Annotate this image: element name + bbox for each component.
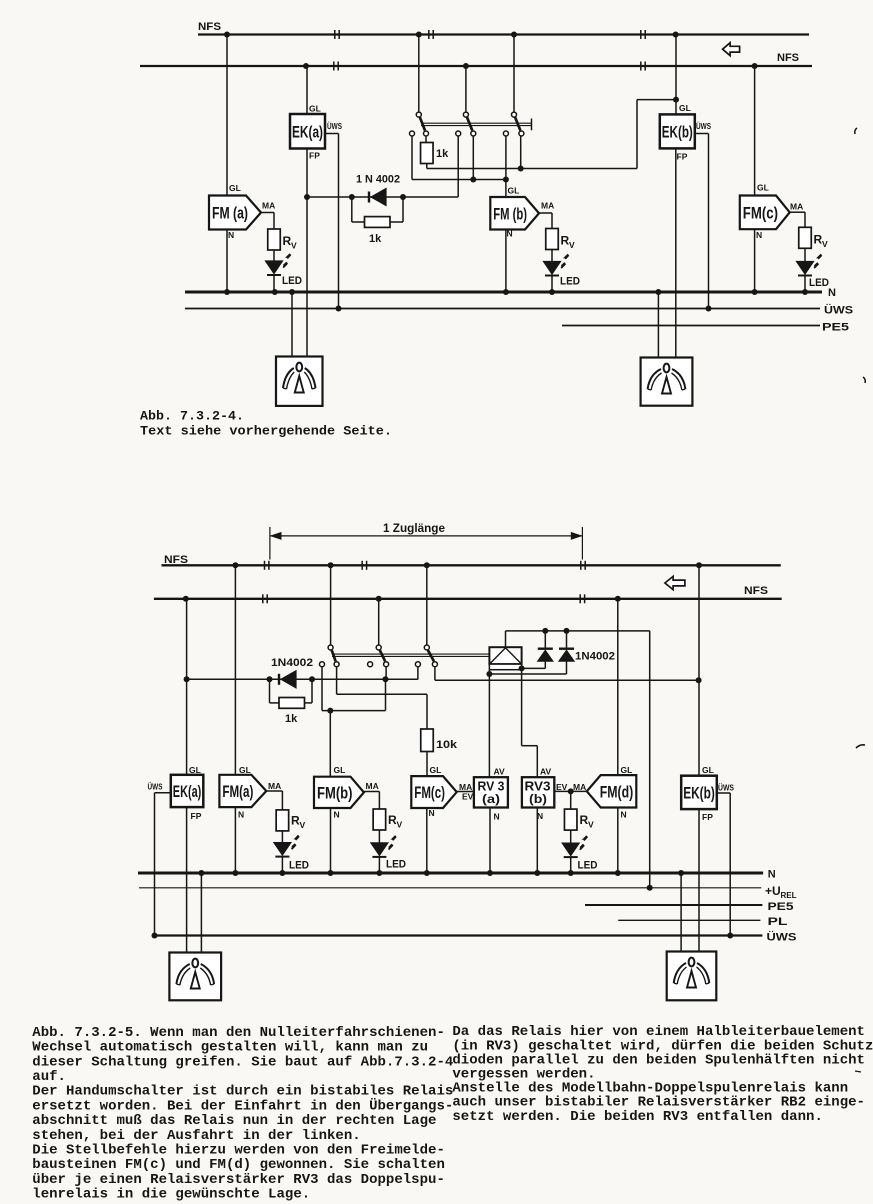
svg-text:LED: LED (282, 275, 302, 287)
svg-text:Wechsel automatisch gestalten: Wechsel automatisch gestalten will, kann… (32, 1041, 428, 1056)
svg-text:1k: 1k (436, 148, 449, 160)
svg-text:FM(c): FM(c) (414, 783, 445, 802)
svg-text:ÜWS: ÜWS (696, 121, 711, 131)
svg-text:MA: MA (790, 202, 803, 212)
svg-text:N: N (768, 869, 776, 881)
svg-text:N: N (429, 808, 435, 818)
svg-text:V: V (569, 240, 575, 250)
svg-text:PE5: PE5 (768, 901, 794, 913)
svg-text:(b): (b) (529, 792, 547, 806)
svg-text:ersetzt worden. Bei der Einfah: ersetzt worden. Bei der Einfahrt in den … (32, 1097, 453, 1114)
svg-text:1k: 1k (369, 233, 382, 245)
svg-text:10k: 10k (436, 739, 458, 751)
svg-text:1 Zuglänge: 1 Zuglänge (383, 521, 445, 535)
svg-text:LED: LED (560, 276, 580, 288)
svg-text:setzt werden. Die beiden RV3 e: setzt werden. Die beiden RV3 entfallen d… (452, 1110, 822, 1125)
svg-text:N: N (238, 810, 244, 820)
svg-text:MA: MA (262, 201, 275, 211)
svg-text:Die Stellbefehle hierzu werden: Die Stellbefehle hierzu werden von den F… (32, 1144, 445, 1159)
svg-text:FM(d): FM(d) (600, 782, 634, 801)
svg-text:ÜWS: ÜWS (824, 304, 853, 317)
svg-text:V: V (300, 820, 306, 830)
svg-text:N: N (756, 230, 762, 240)
svg-text:Da das Relais hier von einem H: Da das Relais hier von einem Halbleiterb… (452, 1025, 865, 1040)
svg-text:ÜWS: ÜWS (767, 931, 797, 944)
svg-text:GL: GL (430, 765, 442, 775)
svg-text:AV: AV (494, 767, 506, 777)
svg-text:FM (b): FM (b) (493, 204, 527, 223)
svg-text:auf.: auf. (32, 1070, 66, 1085)
svg-text:EK(b): EK(b) (683, 783, 715, 802)
svg-text:auch unser bistabiler Relaisve: auch unser bistabiler Relaisverstärker R… (452, 1096, 865, 1111)
svg-text:Text siehe vorhergehende Seite: Text siehe vorhergehende Seite. (140, 423, 392, 438)
svg-text:GL: GL (679, 103, 691, 113)
svg-text:GL: GL (309, 104, 321, 114)
svg-text:PE5: PE5 (822, 322, 849, 334)
svg-text:über je einen Relaisverstärker: über je einen Relaisverstärker RV3 das D… (32, 1173, 445, 1188)
svg-text:Abb. 7.3.2-5. Wenn man den Nul: Abb. 7.3.2-5. Wenn man den Nulleiterfahr… (32, 1026, 445, 1041)
svg-text:V: V (822, 239, 828, 249)
svg-text:dioden parallel zu den beiden: dioden parallel zu den beiden Spulenhälf… (452, 1053, 865, 1068)
svg-text:EV: EV (462, 792, 474, 802)
svg-text:1k: 1k (285, 713, 298, 725)
svg-text:V: V (588, 820, 594, 830)
svg-text:GL: GL (757, 183, 769, 193)
svg-text:EK(b): EK(b) (662, 122, 693, 141)
svg-text:vergessen werden.: vergessen werden. (452, 1068, 595, 1083)
svg-text:abschnitt muß das Relais nun i: abschnitt muß das Relais nun in der rech… (32, 1114, 436, 1129)
svg-text:EK(a): EK(a) (292, 122, 323, 141)
svg-text:N: N (621, 810, 627, 820)
svg-text:FP: FP (191, 811, 202, 821)
svg-text:V: V (397, 820, 403, 830)
svg-text:MA: MA (366, 781, 379, 791)
svg-text:EV: EV (556, 782, 568, 792)
svg-text:GL: GL (239, 765, 251, 775)
svg-text:PL: PL (768, 916, 788, 928)
svg-text:MA: MA (268, 781, 281, 791)
svg-text:GL: GL (508, 186, 520, 196)
svg-text:GL: GL (229, 183, 241, 193)
svg-text:REL: REL (781, 891, 797, 900)
svg-text:FM (a): FM (a) (212, 204, 248, 223)
svg-text:GL: GL (334, 765, 346, 775)
svg-text:stehen, bei der Ausfahrt in de: stehen, bei der Ausfahrt in der linken. (32, 1129, 360, 1144)
svg-text:GL: GL (189, 765, 201, 775)
svg-text:FP: FP (309, 151, 320, 161)
svg-text:Abb. 7.3.2-4.: Abb. 7.3.2-4. (140, 408, 244, 423)
svg-text:LED: LED (289, 860, 309, 872)
svg-text:FM(b): FM(b) (317, 783, 353, 802)
svg-text:ÜWS: ÜWS (718, 783, 734, 793)
svg-text:EK(a): EK(a) (173, 782, 202, 801)
svg-text:LED: LED (578, 860, 598, 872)
svg-text:ÜWS: ÜWS (327, 121, 342, 131)
svg-text:1N4002: 1N4002 (271, 657, 313, 669)
svg-text:N: N (494, 812, 500, 822)
svg-text:ÜWS: ÜWS (148, 782, 163, 792)
svg-text:dieser Schaltung greifen. Sie: dieser Schaltung greifen. Sie baut auf A… (32, 1055, 453, 1070)
svg-text:+U: +U (765, 884, 781, 898)
svg-text:GL: GL (621, 765, 633, 775)
svg-text:1 N 4002: 1 N 4002 (356, 174, 400, 186)
svg-text:Der Handumschalter ist durch e: Der Handumschalter ist durch ein bistabi… (32, 1085, 453, 1100)
svg-text:FP: FP (702, 812, 713, 822)
svg-text:(a): (a) (482, 792, 500, 806)
svg-text:FM(a): FM(a) (222, 782, 253, 801)
svg-text:V: V (291, 241, 297, 251)
svg-text:FM(c): FM(c) (743, 203, 778, 222)
svg-text:GL: GL (702, 765, 714, 775)
svg-text:Anstelle des Modellbahn-Doppel: Anstelle des Modellbahn-Doppelspulenrela… (452, 1082, 848, 1097)
svg-text:NFS: NFS (164, 554, 188, 566)
svg-text:1N4002: 1N4002 (575, 651, 615, 663)
svg-text:NFS: NFS (777, 52, 799, 64)
svg-text:NFS: NFS (744, 585, 768, 597)
svg-text:N: N (828, 287, 836, 299)
svg-text:FP: FP (677, 152, 688, 162)
svg-text:MA: MA (541, 201, 554, 211)
svg-text:N: N (507, 229, 513, 239)
svg-text:N: N (228, 230, 234, 240)
svg-text:MA: MA (459, 782, 472, 792)
svg-text:N: N (334, 810, 340, 820)
svg-text:AV: AV (540, 767, 552, 777)
svg-text:lenrelais in die gewünschte La: lenrelais in die gewünschte Lage. (32, 1188, 310, 1203)
svg-text:bausteinen FM(c) und FM(d) gew: bausteinen FM(c) und FM(d) gewonnen. Sie… (32, 1158, 445, 1173)
svg-text:LED: LED (386, 859, 406, 871)
svg-text:LED: LED (809, 277, 829, 289)
svg-text:MA: MA (573, 782, 586, 792)
svg-text:NFS: NFS (198, 21, 221, 33)
svg-text:(in RV3) geschaltet wird, dürf: (in RV3) geschaltet wird, dürfen die bei… (452, 1039, 873, 1054)
